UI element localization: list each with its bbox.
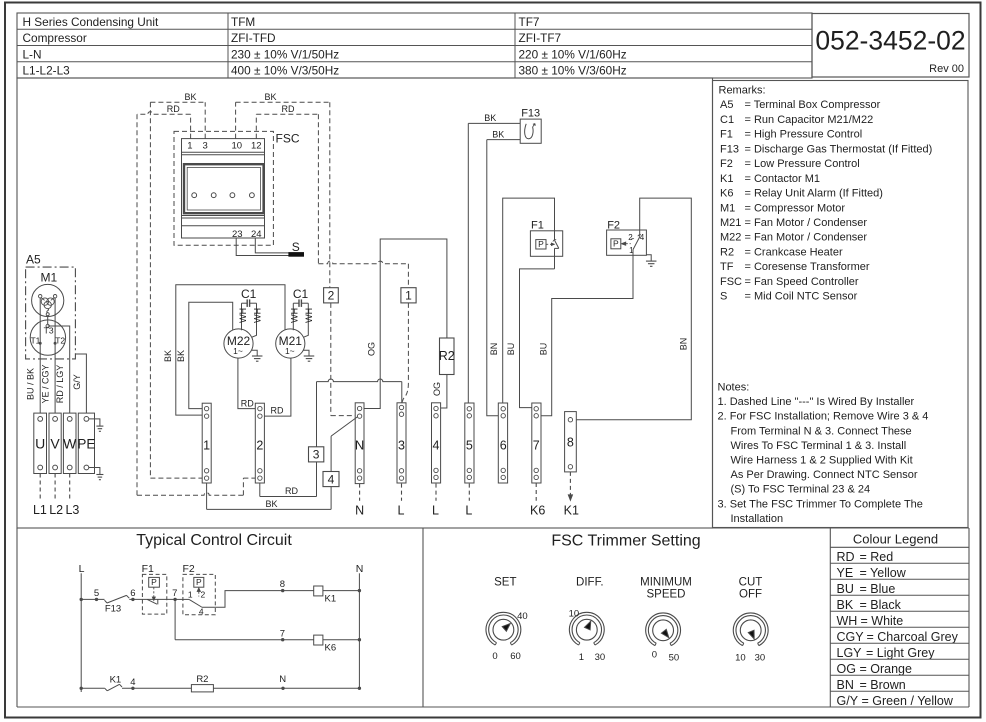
svg-text:C1: C1 [293, 287, 309, 301]
svg-text:OG: OG [367, 342, 377, 356]
svg-text:Colour Legend: Colour Legend [853, 532, 938, 547]
svg-text:F2: F2 [720, 158, 733, 170]
svg-text:4: 4 [130, 677, 135, 688]
svg-text:R2: R2 [439, 349, 455, 363]
svg-text:4: 4 [433, 439, 440, 453]
svg-text:OFF: OFF [739, 589, 762, 601]
svg-text:L-N: L-N [23, 47, 42, 61]
svg-text:23: 23 [232, 229, 243, 240]
svg-text:TF: TF [720, 261, 734, 273]
svg-text:Remarks:: Remarks: [719, 85, 766, 97]
svg-text:S: S [292, 240, 300, 254]
svg-text:L1: L1 [33, 503, 47, 517]
svg-text:RD: RD [837, 550, 855, 564]
svg-text:= Run Capacitor M21/M22: = Run Capacitor M21/M22 [745, 114, 874, 126]
svg-text:10: 10 [232, 141, 243, 152]
svg-text:2: 2 [328, 289, 335, 303]
svg-text:BK: BK [163, 350, 173, 362]
svg-text:N: N [356, 563, 364, 575]
svg-text:CUT: CUT [739, 577, 763, 589]
svg-text:F1: F1 [720, 129, 733, 141]
svg-text:BK: BK [265, 499, 277, 509]
svg-text:5: 5 [94, 588, 99, 599]
svg-text:L2: L2 [49, 503, 63, 517]
svg-text:N: N [355, 504, 364, 518]
svg-text:PE: PE [77, 436, 95, 451]
svg-text:2: 2 [628, 233, 633, 242]
svg-text:L: L [432, 504, 439, 518]
svg-text:R2: R2 [196, 674, 208, 685]
svg-text:= Green / Yellow: = Green / Yellow [862, 694, 954, 708]
svg-text:T2: T2 [55, 335, 65, 345]
svg-text:BK: BK [184, 92, 196, 102]
svg-text:1: 1 [188, 589, 193, 599]
svg-text:= Brown: = Brown [860, 678, 906, 692]
svg-text:052-3452-02: 052-3452-02 [815, 26, 965, 56]
svg-text:SET: SET [494, 577, 516, 589]
svg-text:3: 3 [203, 141, 208, 152]
svg-text:WH: WH [837, 614, 858, 628]
svg-text:(S) To FSC Terminal 23 & 24: (S) To FSC Terminal 23 & 24 [731, 484, 871, 496]
svg-text:L1-L2-L3: L1-L2-L3 [23, 64, 71, 78]
svg-text:K1: K1 [564, 504, 579, 518]
svg-text:1. Dashed Line "---" Is Wired: 1. Dashed Line "---" Is Wired By Install… [718, 396, 915, 408]
svg-text:= Orange: = Orange [860, 662, 913, 676]
svg-text:= Contactor M1: = Contactor M1 [745, 173, 821, 185]
svg-text:BK: BK [837, 598, 854, 612]
svg-text:1: 1 [405, 289, 412, 303]
svg-text:2: 2 [201, 589, 206, 599]
svg-text:T1: T1 [30, 335, 40, 345]
svg-text:1: 1 [579, 652, 584, 663]
svg-text:A5: A5 [26, 253, 41, 267]
svg-text:OG: OG [837, 662, 856, 676]
svg-text:12: 12 [251, 141, 262, 152]
svg-text:K1: K1 [325, 594, 337, 605]
svg-text:= Fan Motor / Condenser: = Fan Motor / Condenser [745, 217, 868, 229]
svg-text:WH: WH [290, 308, 300, 323]
svg-text:K6: K6 [325, 643, 337, 654]
svg-text:= Fan Motor / Condenser: = Fan Motor / Condenser [745, 232, 868, 244]
svg-text:= Terminal Box Compressor: = Terminal Box Compressor [745, 99, 881, 111]
svg-text:3. Set The FSC Trimmer To Comp: 3. Set The FSC Trimmer To Complete The [718, 498, 923, 510]
svg-text:7: 7 [172, 588, 177, 599]
svg-text:= White: = White [861, 614, 904, 628]
svg-text:BK: BK [492, 129, 504, 139]
svg-text:380 ± 10% V/3/60Hz: 380 ± 10% V/3/60Hz [519, 64, 627, 78]
svg-text:BU: BU [539, 343, 549, 356]
svg-text:BN: BN [679, 338, 689, 351]
svg-text:1~: 1~ [285, 346, 295, 356]
svg-text:TFM: TFM [231, 15, 255, 29]
svg-text:P: P [538, 239, 544, 249]
svg-text:OG: OG [432, 382, 442, 396]
svg-text:2. For FSC Installation; Remov: 2. For FSC Installation; Remove Wire 3 &… [718, 411, 929, 423]
svg-text:U: U [35, 435, 45, 451]
svg-text:R2: R2 [720, 246, 734, 258]
svg-text:F13: F13 [521, 108, 540, 120]
svg-text:5: 5 [466, 439, 473, 453]
svg-text:H Series Condensing Unit: H Series Condensing Unit [23, 15, 159, 29]
svg-text:RD: RD [282, 104, 295, 114]
svg-text:From Terminal N & 3. Connect T: From Terminal N & 3. Connect These [731, 425, 912, 437]
svg-text:BK: BK [484, 113, 496, 123]
svg-text:Installation: Installation [731, 513, 784, 525]
svg-text:4: 4 [328, 472, 335, 486]
svg-text:30: 30 [755, 653, 766, 664]
svg-text:P: P [151, 577, 157, 587]
svg-text:WH: WH [238, 308, 248, 323]
svg-text:RD / LGY: RD / LGY [55, 365, 65, 404]
svg-text:40: 40 [517, 611, 528, 622]
svg-text:C1: C1 [720, 114, 734, 126]
svg-text:4: 4 [199, 606, 204, 616]
svg-text:C1: C1 [241, 287, 257, 301]
svg-text:6: 6 [130, 588, 135, 599]
svg-text:= Blue: = Blue [860, 582, 896, 596]
svg-text:7: 7 [280, 628, 285, 639]
svg-text:Notes:: Notes: [718, 382, 750, 394]
svg-text:N: N [355, 438, 364, 453]
svg-text:= Red: = Red [860, 550, 894, 564]
svg-text:M1: M1 [41, 271, 58, 285]
svg-text:F13: F13 [720, 143, 739, 155]
svg-text:WH: WH [304, 308, 314, 323]
svg-text:F2: F2 [607, 219, 620, 231]
svg-text:YE / CGY: YE / CGY [41, 364, 51, 403]
svg-text:8: 8 [567, 436, 574, 450]
svg-text:BN: BN [489, 343, 499, 356]
svg-text:SPEED: SPEED [647, 589, 686, 601]
svg-text:CGY: CGY [837, 630, 865, 644]
svg-text:BU / BK: BU / BK [26, 368, 36, 400]
svg-text:TF7: TF7 [519, 15, 540, 29]
svg-text:24: 24 [251, 229, 262, 240]
svg-text:1~: 1~ [233, 346, 243, 356]
svg-text:= Fan Speed Controller: = Fan Speed Controller [745, 276, 859, 288]
svg-text:F2: F2 [182, 563, 194, 575]
svg-text:30: 30 [595, 652, 606, 663]
svg-text:= Crankcase Heater: = Crankcase Heater [745, 246, 843, 258]
svg-text:= Charcoal Grey: = Charcoal Grey [867, 630, 959, 644]
svg-text:1: 1 [203, 439, 210, 453]
svg-text:LGY: LGY [837, 646, 863, 660]
svg-text:FSC: FSC [720, 276, 742, 288]
svg-text:S: S [720, 291, 727, 303]
svg-text:K1: K1 [110, 675, 122, 686]
svg-text:N: N [279, 674, 286, 685]
svg-text:Wires To FSC Terminal 1 & 3. I: Wires To FSC Terminal 1 & 3. Install [731, 440, 907, 452]
svg-text:50: 50 [669, 653, 680, 664]
svg-text:400 ± 10% V/3/50Hz: 400 ± 10% V/3/50Hz [231, 64, 339, 78]
svg-text:FSC Trimmer Setting: FSC Trimmer Setting [551, 532, 700, 549]
svg-text:6: 6 [500, 439, 507, 453]
svg-text:1: 1 [187, 141, 192, 152]
svg-text:= Discharge Gas Thermostat (If: = Discharge Gas Thermostat (If Fitted) [745, 143, 933, 155]
svg-text:F1: F1 [142, 563, 154, 575]
svg-text:YE: YE [837, 566, 854, 580]
svg-text:T3: T3 [44, 326, 54, 336]
svg-text:= Compressor Motor: = Compressor Motor [745, 202, 846, 214]
svg-text:= Mid Coil NTC Sensor: = Mid Coil NTC Sensor [745, 291, 858, 303]
svg-text:= Black: = Black [860, 598, 902, 612]
svg-text:10: 10 [569, 609, 580, 620]
svg-text:= Relay Unit Alarm (If Fitted): = Relay Unit Alarm (If Fitted) [745, 188, 883, 200]
svg-text:WH: WH [252, 308, 262, 323]
svg-text:F13: F13 [105, 604, 121, 615]
svg-text:0: 0 [652, 650, 657, 661]
svg-text:Wire Harness 1 & 2 Supplied Wi: Wire Harness 1 & 2 Supplied With Kit [731, 455, 913, 467]
svg-text:= High Pressure Control: = High Pressure Control [745, 129, 863, 141]
svg-text:L: L [79, 563, 85, 575]
svg-text:RD: RD [241, 398, 254, 408]
svg-text:BU: BU [506, 343, 516, 356]
svg-text:Typical Control Circuit: Typical Control Circuit [136, 532, 292, 549]
svg-text:3: 3 [313, 448, 320, 462]
svg-text:L3: L3 [65, 503, 79, 517]
svg-text:K6: K6 [530, 504, 545, 518]
svg-text:= Low Pressure Control: = Low Pressure Control [745, 158, 860, 170]
svg-text:BU: BU [837, 582, 854, 596]
svg-text:BN: BN [837, 678, 854, 692]
svg-text:ZFI-TF7: ZFI-TF7 [519, 31, 562, 45]
svg-text:= Light Grey: = Light Grey [866, 646, 935, 660]
svg-text:MINIMUM: MINIMUM [640, 577, 692, 589]
svg-text:P: P [196, 577, 202, 587]
svg-text:As Per Drawing. Connect NTC Se: As Per Drawing. Connect NTC Sensor [731, 469, 918, 481]
svg-text:K6: K6 [720, 188, 733, 200]
svg-text:2: 2 [256, 439, 263, 453]
svg-text:DIFF.: DIFF. [576, 577, 603, 589]
svg-text:3: 3 [398, 439, 405, 453]
svg-text:220 ± 10% V/1/60Hz: 220 ± 10% V/1/60Hz [519, 47, 627, 61]
svg-text:230 ± 10% V/1/50Hz: 230 ± 10% V/1/50Hz [231, 47, 339, 61]
svg-text:L: L [465, 504, 472, 518]
svg-text:7: 7 [533, 439, 540, 453]
svg-text:RD: RD [167, 104, 180, 114]
svg-text:10: 10 [735, 653, 746, 664]
svg-text:Rev 00: Rev 00 [929, 63, 964, 75]
svg-text:M1: M1 [720, 202, 735, 214]
svg-text:G/Y: G/Y [72, 374, 82, 390]
svg-text:M21: M21 [720, 217, 741, 229]
svg-text:= Yellow: = Yellow [860, 566, 907, 580]
svg-text:BK: BK [176, 350, 186, 362]
svg-text:RD: RD [285, 486, 298, 496]
svg-text:G/Y: G/Y [837, 694, 859, 708]
svg-text:= Coresense Transformer: = Coresense Transformer [745, 261, 870, 273]
svg-text:F1: F1 [531, 219, 544, 231]
svg-text:60: 60 [510, 651, 521, 662]
svg-text:V: V [50, 435, 60, 451]
svg-text:K1: K1 [720, 173, 733, 185]
svg-text:Compressor: Compressor [23, 31, 87, 45]
svg-text:FSC: FSC [276, 132, 300, 146]
svg-text:8: 8 [280, 579, 285, 590]
svg-text:ZFI-TFD: ZFI-TFD [231, 31, 276, 45]
svg-text:BK: BK [264, 92, 276, 102]
svg-text:P: P [613, 239, 619, 249]
svg-text:A5: A5 [720, 99, 733, 111]
svg-text:W: W [63, 435, 77, 451]
svg-text:0: 0 [492, 651, 497, 662]
svg-text:M22: M22 [720, 232, 741, 244]
svg-text:RD: RD [271, 406, 284, 416]
svg-text:L: L [398, 504, 405, 518]
